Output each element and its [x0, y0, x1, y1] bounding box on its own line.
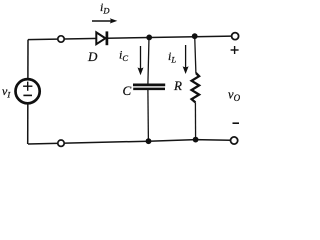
svg-text:C: C — [123, 83, 132, 98]
resistor R zigzag — [192, 73, 200, 102]
plus sign output — [231, 49, 239, 51]
wire capacitor branch lower — [147, 90, 150, 142]
junction dot bottom capacitor — [146, 138, 152, 144]
junction dot bottom resistor — [193, 137, 199, 143]
svg-text:iD: iD — [100, 0, 110, 16]
junction dot top capacitor — [146, 35, 152, 41]
arrow iD — [92, 20, 111, 22]
capacitor C plates — [133, 84, 165, 87]
terminal open circle top right — [232, 33, 239, 40]
wire bottom horizontal — [28, 140, 230, 144]
svg-text:iC: iC — [119, 48, 128, 64]
wire top horizontal — [28, 36, 232, 40]
wire left vertical — [27, 40, 29, 144]
wire capacitor branch upper — [148, 37, 149, 84]
svg-text:R: R — [173, 78, 182, 93]
node open circle top — [58, 36, 64, 42]
svg-text:vI: vI — [2, 84, 11, 100]
svg-text:D: D — [87, 49, 98, 64]
minus sign output — [233, 122, 240, 124]
wire resistor branch lower — [194, 102, 196, 139]
junction dot top resistor — [192, 33, 198, 39]
svg-text:iL: iL — [168, 49, 176, 65]
svg-text:vO: vO — [228, 88, 241, 104]
diode D — [96, 32, 105, 44]
terminal open circle bottom right — [231, 137, 238, 144]
node open circle bottom — [58, 140, 64, 146]
arrow iC — [140, 46, 142, 69]
voltage source vI — [16, 79, 40, 103]
arrow iL — [185, 45, 187, 67]
wire resistor branch upper — [195, 36, 196, 73]
